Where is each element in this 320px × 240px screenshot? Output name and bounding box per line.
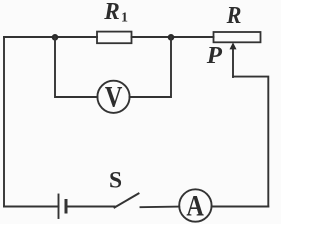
- wiper arrowhead: [230, 42, 237, 49]
- wire battery to switch: [66, 206, 115, 208]
- svg-text:1: 1: [121, 11, 128, 26]
- wire left side: [3, 37, 5, 207]
- ammeter A: [179, 189, 211, 221]
- rheostat R body: [214, 32, 261, 42]
- resistor R1: [97, 32, 132, 44]
- svg-text:R: R: [103, 0, 119, 25]
- wire bottom left to battery: [4, 206, 59, 208]
- node junction left: [52, 34, 59, 41]
- wire voltmeter branch right: [130, 37, 171, 97]
- svg-text:P: P: [206, 43, 223, 69]
- wire ammeter to bottom right corner: [212, 206, 269, 208]
- svg-text:S: S: [109, 168, 122, 194]
- wire voltmeter branch left: [55, 37, 97, 97]
- wire wiper to right side down: [233, 77, 268, 207]
- wire switch contact to ammeter: [141, 206, 180, 209]
- svg-text:V: V: [105, 81, 123, 114]
- wiper arrow P stem: [232, 48, 234, 77]
- battery short plate: [65, 201, 68, 213]
- switch S blade: [115, 194, 139, 208]
- wire top from left corner to R1: [4, 36, 97, 38]
- svg-text:A: A: [186, 189, 204, 222]
- voltmeter V: [97, 81, 129, 113]
- svg-text:R: R: [226, 3, 242, 29]
- node junction right: [168, 34, 175, 41]
- battery long plate: [58, 195, 60, 219]
- wire between R1 and rheostat R: [132, 36, 214, 38]
